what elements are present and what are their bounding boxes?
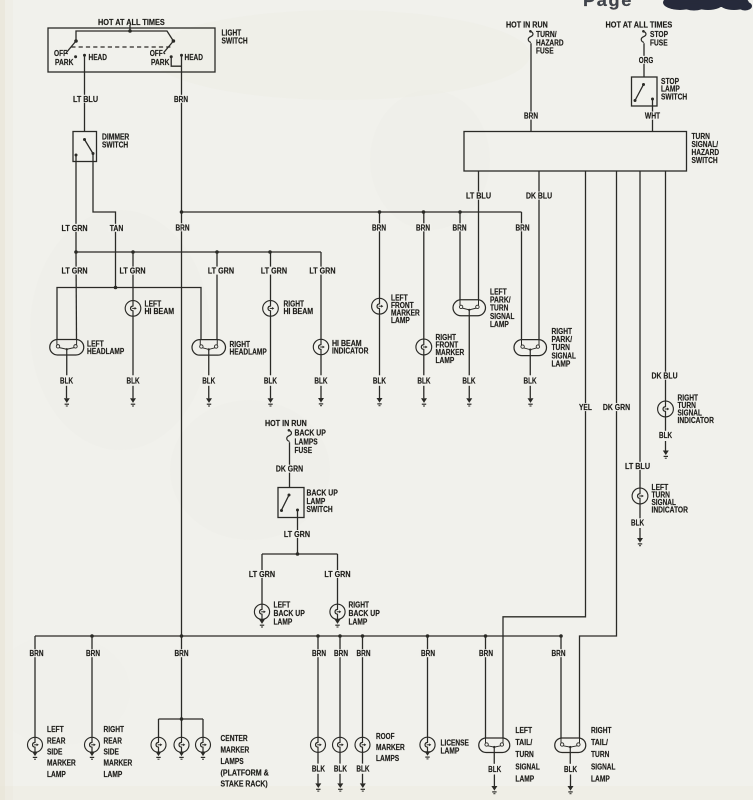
wire to center marker lamp 3 <box>202 719 204 737</box>
svg-text:RIGHT: RIGHT <box>591 726 612 735</box>
wire LT BLU turn switch to left park/turn lamp <box>478 171 480 300</box>
lamp LEFT REAR SIDE MARKER <box>28 737 43 752</box>
label BRN (mid) <box>174 223 191 231</box>
svg-text:BRN: BRN <box>421 649 435 658</box>
lamp RIGHT FRONT MARKER <box>416 339 432 355</box>
label LT GRN branch 5 <box>308 267 337 275</box>
turn signal/hazard switch box <box>464 132 687 172</box>
svg-text:BLK: BLK <box>488 765 501 774</box>
svg-text:SWITCH: SWITCH <box>102 140 128 149</box>
svg-text:MARKER: MARKER <box>47 759 76 768</box>
stop lamp switch contacts and blade <box>634 83 655 102</box>
lamp RIGHT TAIL/TURN SIGNAL <box>555 738 586 753</box>
wire LT GRN dimmer to headlamp bus <box>75 155 77 252</box>
svg-text:TAIL/: TAIL/ <box>591 738 609 747</box>
svg-text:BRN: BRN <box>174 95 188 104</box>
svg-text:HOT AT ALL TIMES: HOT AT ALL TIMES <box>98 18 165 27</box>
svg-text:TAN: TAN <box>110 224 124 233</box>
svg-text:LAMP: LAMP <box>591 775 610 784</box>
svg-text:ROOF: ROOF <box>376 732 395 741</box>
wire back up lamp distribution bar <box>262 553 338 555</box>
label BRN (roof marker 1) <box>311 649 328 657</box>
svg-text:BLK: BLK <box>60 377 73 386</box>
ground (roof marker 1) <box>315 783 321 791</box>
label DK BLU (right turn output) <box>525 192 554 200</box>
wire hi beam indicator ground lead <box>320 355 322 376</box>
svg-text:HOT IN RUN: HOT IN RUN <box>265 419 307 428</box>
wire to right hi beam lamp <box>270 252 272 301</box>
light switch box <box>48 28 215 72</box>
svg-text:TAIL/: TAIL/ <box>515 738 533 747</box>
ground (left indicator) <box>637 538 643 546</box>
svg-text:SWITCH: SWITCH <box>222 36 248 45</box>
lamp CENTER MARKER 3 <box>196 737 211 752</box>
wire LT BLU turn switch to left turn indicator <box>639 171 641 488</box>
lamp HI BEAM INDICATOR <box>313 339 328 354</box>
svg-text:MARKER: MARKER <box>376 743 405 752</box>
lamp LEFT TAIL/TURN SIGNAL <box>479 738 510 753</box>
wire to roof marker lamp 1 <box>317 636 319 737</box>
wire LT GRN distribution bus <box>76 251 321 253</box>
wire WHT stop lamp switch to turn signal switch <box>652 99 654 132</box>
label DK GRN <box>602 403 632 411</box>
svg-text:LAMPS: LAMPS <box>221 757 245 766</box>
wire to roof marker lamp 3 <box>362 636 364 737</box>
svg-text:HEAD: HEAD <box>89 53 108 62</box>
svg-text:LAMPS: LAMPS <box>295 437 319 446</box>
svg-text:HOT AT ALL TIMES: HOT AT ALL TIMES <box>606 21 673 30</box>
svg-text:LT GRN: LT GRN <box>62 267 88 276</box>
svg-text:LT GRN: LT GRN <box>309 267 335 276</box>
wire right tail ground lead <box>569 753 571 764</box>
dimmer switch box <box>73 132 97 162</box>
ground (license lamp) <box>425 751 431 759</box>
svg-text:RIGHT: RIGHT <box>104 725 125 734</box>
wire to ground (roof marker 1) <box>317 774 319 784</box>
lamp LEFT HEADLAMP <box>50 339 84 355</box>
ground (left hi beam) <box>130 398 136 406</box>
lamp ROOF MARKER 3 <box>355 737 370 752</box>
wire to license lamp <box>427 636 429 737</box>
back up lamp switch box <box>278 488 304 518</box>
ground (right front marker) <box>421 398 427 406</box>
wire BRN park lamp bus <box>182 211 522 213</box>
svg-text:REAR: REAR <box>47 736 66 745</box>
svg-text:BRN: BRN <box>516 223 530 232</box>
wire BRN to left park/turn lamp <box>459 212 461 300</box>
wire roof marker 2 ground lead <box>339 752 341 763</box>
wire BRN tail lamp bus <box>35 635 561 637</box>
svg-text:LT GRN: LT GRN <box>284 530 310 539</box>
ground (center marker 3) <box>200 752 206 760</box>
lamp LEFT PARK/TURN SIGNAL <box>453 300 486 316</box>
wire DK BLU turn switch to right park/turn lamp <box>538 171 540 339</box>
wire to right rear side marker lamp <box>91 636 93 737</box>
svg-text:LAMP: LAMP <box>274 618 293 627</box>
svg-text:LEFT: LEFT <box>47 725 64 734</box>
wire BRN fuse to turn signal switch <box>530 43 532 131</box>
svg-text:HOT IN RUN: HOT IN RUN <box>506 21 548 30</box>
svg-text:INDICATOR: INDICATOR <box>678 416 715 425</box>
lamp LICENSE <box>420 737 435 752</box>
label BRN branch left front marker <box>371 223 388 231</box>
svg-text:LAMP: LAMP <box>391 316 410 325</box>
svg-text:LT GRN: LT GRN <box>324 570 350 579</box>
svg-text:LT BLU: LT BLU <box>625 462 650 471</box>
label WHT <box>644 112 662 120</box>
wire to left back up lamp <box>261 554 263 604</box>
svg-text:BLK: BLK <box>417 377 430 386</box>
label LT BLU (left turn output) <box>465 192 493 200</box>
fuse STOP <box>641 30 646 43</box>
svg-text:BLK: BLK <box>202 377 215 386</box>
wire to hi beam indicator <box>320 252 322 339</box>
wire YEL turn switch to left tail/turn lamp <box>503 171 586 738</box>
svg-text:LT BLU: LT BLU <box>466 192 491 201</box>
junction dot back up lamp split <box>296 552 300 556</box>
svg-text:HI BEAM: HI BEAM <box>284 307 314 316</box>
label LT GRN (dimmer low beam) <box>60 224 89 232</box>
ground (right park/turn) <box>528 398 534 406</box>
ground (left rear side marker) <box>32 752 38 760</box>
wire center marker distribution bar <box>159 718 204 720</box>
wire BRN to right park/turn lamp <box>521 212 523 339</box>
svg-text:HEAD: HEAD <box>185 53 204 62</box>
wire to ground (roof marker 2) <box>339 774 341 784</box>
junction dot TAN bus <box>114 286 118 290</box>
wire to right back up lamp <box>337 554 339 604</box>
svg-text:CENTER: CENTER <box>221 734 248 743</box>
fuse TURN/HAZARD <box>528 30 533 43</box>
svg-text:LT BLU: LT BLU <box>73 95 98 104</box>
wire to ground (left tail) <box>493 775 495 787</box>
label LT GRN branch 4 <box>260 267 289 275</box>
lamp LEFT BACK UP <box>254 604 269 619</box>
svg-text:BRN: BRN <box>453 223 467 232</box>
svg-text:TURN: TURN <box>591 750 610 759</box>
junction dots on BRN bus <box>180 210 462 214</box>
blacked-out page number scribble <box>663 0 752 11</box>
svg-text:HEADLAMP: HEADLAMP <box>87 347 125 356</box>
label BRN (license lamp) <box>420 649 437 657</box>
svg-text:OFF: OFF <box>54 49 67 58</box>
wire TAN high-beam bus to headlamp pins <box>57 288 201 340</box>
wire right headlamp ground lead <box>208 355 210 375</box>
wire left front marker ground lead <box>379 314 381 375</box>
junction dot center marker bar <box>180 717 184 721</box>
label BRN (left rear marker) <box>28 649 45 657</box>
wire to ground (left hi beam) <box>132 386 134 399</box>
lamp RIGHT HEADLAMP <box>192 340 226 356</box>
svg-text:SWITCH: SWITCH <box>661 93 687 102</box>
wire park-to-head jumper <box>171 57 181 66</box>
svg-text:HI BEAM: HI BEAM <box>145 307 175 316</box>
svg-text:DK GRN: DK GRN <box>603 403 630 412</box>
svg-text:LAMP: LAMP <box>552 360 571 369</box>
svg-text:HEADLAMP: HEADLAMP <box>230 347 268 356</box>
svg-text:BRN: BRN <box>30 649 44 658</box>
wire BRN light switch down to tail bus <box>181 55 183 636</box>
wire BRN to left tail/turn lamp <box>485 636 487 738</box>
wire ORG stop fuse to stop lamp switch <box>643 43 645 77</box>
svg-text:DK GRN: DK GRN <box>276 465 303 474</box>
wire to ground (right front marker) <box>423 386 425 399</box>
label BRN (center markers) <box>173 649 190 657</box>
wire left tail ground lead <box>493 753 495 764</box>
svg-text:YEL: YEL <box>579 403 592 412</box>
svg-text:LT GRN: LT GRN <box>208 267 234 276</box>
back up lamp switch contacts and blade <box>280 494 299 513</box>
svg-text:SIDE: SIDE <box>104 748 120 757</box>
svg-text:INDICATOR: INDICATOR <box>652 505 689 514</box>
svg-text:FUSE: FUSE <box>536 47 554 56</box>
wire BRN to right tail/turn lamp <box>560 636 562 738</box>
label LT BLU (left indicator) <box>624 462 652 470</box>
wire right indicator ground lead <box>665 417 667 431</box>
svg-text:BACK UP: BACK UP <box>295 429 327 438</box>
wire to ground (left indicator) <box>639 528 641 538</box>
svg-text:LT GRN: LT GRN <box>62 224 88 233</box>
wire to ground (right indicator) <box>665 441 667 451</box>
ground (right back up lamp) <box>335 619 341 627</box>
lamp CENTER MARKER 2 <box>174 737 189 752</box>
svg-text:BLK: BLK <box>264 377 277 386</box>
ground (roof marker 3) <box>360 783 366 791</box>
wire to ground (right park/turn) <box>529 386 531 399</box>
wire DK GRN turn switch to right tail/turn lamp <box>580 171 617 738</box>
wire TAN dimmer to high beam bus <box>93 154 116 288</box>
junction dots on tail bus <box>90 634 563 638</box>
wire to right headlamp low-beam pin <box>216 252 218 340</box>
svg-text:BRN: BRN <box>175 649 189 658</box>
label TAN <box>108 224 124 232</box>
svg-text:REAR: REAR <box>104 736 123 745</box>
svg-text:BLK: BLK <box>127 377 140 386</box>
svg-text:BLK: BLK <box>312 764 325 773</box>
svg-text:LAMP: LAMP <box>349 618 368 627</box>
svg-text:LAMP: LAMP <box>104 770 123 779</box>
label LT GRN (back up output) <box>283 530 312 538</box>
wire to ground (right tail) <box>570 775 572 787</box>
wire to left rear side marker lamp <box>34 636 36 737</box>
svg-text:BLK: BLK <box>564 765 577 774</box>
svg-text:TURN: TURN <box>515 750 534 759</box>
svg-text:FUSE: FUSE <box>295 446 313 455</box>
dimmer switch contacts and blade <box>75 138 95 157</box>
svg-text:BRN: BRN <box>357 649 371 658</box>
label BRN (roof marker 3) <box>355 649 372 657</box>
label BRN (upper) <box>173 95 190 103</box>
label BRN (roof marker 2) <box>333 649 350 657</box>
svg-text:SWITCH: SWITCH <box>307 505 333 514</box>
label LT GRN branch 3 <box>207 267 236 275</box>
svg-text:(PLATFORM &: (PLATFORM & <box>221 768 269 777</box>
wire BRN to center marker lamps <box>181 636 183 719</box>
label YEL <box>578 403 594 411</box>
wire to center marker lamp 1 <box>158 719 160 737</box>
ground (right hi beam) <box>268 398 274 406</box>
label BRN (left tail) <box>478 649 495 657</box>
svg-text:DK BLU: DK BLU <box>526 192 552 201</box>
svg-text:SWITCH: SWITCH <box>692 156 718 165</box>
lamp CENTER MARKER 1 <box>151 737 166 752</box>
svg-text:SIGNAL: SIGNAL <box>515 762 539 771</box>
wire DK BLU turn switch to right turn indicator <box>665 171 667 401</box>
label LT GRN (left back up) <box>248 570 277 578</box>
ground (center marker 2) <box>179 752 185 760</box>
wire to ground (right hi beam) <box>270 386 272 399</box>
svg-text:LT GRN: LT GRN <box>120 267 146 276</box>
svg-text:LAMP: LAMP <box>441 747 460 756</box>
svg-text:BLK: BLK <box>659 431 672 440</box>
wire to ground (hi beam indicator) <box>320 386 322 398</box>
wire right hi beam ground lead <box>270 316 272 375</box>
lamp LEFT TURN SIGNAL INDICATOR <box>632 488 648 504</box>
wire LT GRN back up switch output <box>297 510 299 554</box>
svg-text:FUSE: FUSE <box>650 38 668 47</box>
svg-text:BLK: BLK <box>356 764 369 773</box>
svg-text:LAMPS: LAMPS <box>376 754 400 763</box>
lamp LEFT HI BEAM <box>125 301 141 317</box>
svg-text:PARK: PARK <box>151 58 170 67</box>
wire feed into light switch <box>129 25 131 31</box>
stop lamp switch box <box>632 77 658 106</box>
lamp RIGHT TURN SIGNAL INDICATOR <box>658 401 674 417</box>
svg-text:BRN: BRN <box>86 649 100 658</box>
wire to ground (left headlamp) <box>66 386 68 399</box>
svg-text:PARK: PARK <box>55 58 74 67</box>
svg-text:ORG: ORG <box>639 56 654 65</box>
svg-text:BLK: BLK <box>314 377 327 386</box>
svg-text:BRN: BRN <box>176 223 190 232</box>
svg-text:STAKE RACK): STAKE RACK) <box>221 780 268 789</box>
label LT GRN (right back up) <box>323 570 352 578</box>
wire to center marker lamp 2 <box>181 719 183 737</box>
svg-text:BRN: BRN <box>312 649 326 658</box>
ground (right indicator) <box>663 451 669 459</box>
wire roof marker 3 ground lead <box>362 752 364 763</box>
svg-text:BRN: BRN <box>372 223 386 232</box>
svg-text:WHT: WHT <box>645 112 660 121</box>
label ORG <box>637 56 654 64</box>
label LT BLU <box>72 95 100 103</box>
ground (left tail) <box>491 786 497 794</box>
svg-text:BLK: BLK <box>631 519 644 528</box>
ground (left front marker) <box>377 398 383 406</box>
wire left park/turn ground lead <box>468 316 470 376</box>
wire to left front marker lamp <box>379 212 381 298</box>
wire left hi beam ground lead <box>132 316 134 375</box>
label BRN branch right front marker <box>415 223 432 231</box>
wire to ground (right headlamp) <box>208 386 210 399</box>
wire to left hi beam lamp <box>132 252 134 301</box>
wire to left headlamp low-beam pin <box>75 252 78 340</box>
lamp RIGHT BACK UP <box>330 604 345 619</box>
ground (center marker 1) <box>156 752 162 760</box>
label DK GRN (back up feed) <box>275 465 305 473</box>
ground (roof marker 2) <box>337 783 343 791</box>
ground (right tail) <box>568 786 574 794</box>
light switch blade right <box>164 41 174 54</box>
wire LT BLU light switch to dimmer switch <box>84 55 86 131</box>
svg-text:SIDE: SIDE <box>47 748 63 757</box>
junction dots on LT GRN bus <box>74 250 272 254</box>
svg-text:LT GRN: LT GRN <box>261 267 287 276</box>
lamp RIGHT REAR SIDE MARKER <box>85 737 100 752</box>
ground (right rear side marker) <box>89 752 95 760</box>
wire roof marker 1 ground lead <box>317 752 319 763</box>
light switch contacts <box>74 54 183 59</box>
fuse BACK UP LAMPS <box>287 429 292 441</box>
ground (left back up lamp) <box>259 619 265 627</box>
wire to roof marker lamp 2 <box>339 636 341 737</box>
svg-text:LEFT: LEFT <box>515 726 532 735</box>
label BRN branch right park lamp <box>514 223 531 231</box>
svg-text:INDICATOR: INDICATOR <box>332 346 369 355</box>
svg-text:LAMP: LAMP <box>47 770 66 779</box>
light switch blade left <box>66 41 76 54</box>
svg-text:DK BLU: DK BLU <box>652 372 678 381</box>
svg-text:BLK: BLK <box>373 377 386 386</box>
label BRN branch left park lamp <box>451 223 468 231</box>
label LT GRN branch 1 <box>60 267 89 275</box>
svg-text:MARKER: MARKER <box>104 759 133 768</box>
wire to right front marker lamp <box>423 212 425 339</box>
light switch gang link (dashed) <box>71 46 170 48</box>
svg-text:LAMP: LAMP <box>490 320 509 329</box>
lamp LEFT FRONT MARKER <box>372 298 388 314</box>
svg-text:BLK: BLK <box>524 377 537 386</box>
wire DK GRN fuse to back up lamp switch <box>289 442 291 487</box>
ground (left park/turn) <box>466 398 472 406</box>
svg-text:BLK: BLK <box>334 764 347 773</box>
label BRN (right rear marker) <box>85 649 102 657</box>
label BRN (right tail) <box>550 649 567 657</box>
svg-text:Page: Page <box>583 0 633 10</box>
wire to ground (roof marker 3) <box>362 774 364 784</box>
svg-text:BRN: BRN <box>552 649 566 658</box>
wire right front marker ground lead <box>423 355 425 375</box>
ground (left headlamp) <box>64 398 70 406</box>
ground (hi beam indicator) <box>318 398 324 406</box>
label LT GRN branch 2 <box>118 267 147 275</box>
lamp RIGHT PARK/TURN SIGNAL <box>514 340 547 356</box>
ground (right headlamp) <box>206 398 212 406</box>
wire right park/turn ground lead <box>529 356 531 376</box>
lamp ROOF MARKER 1 <box>311 737 326 752</box>
svg-text:BRN: BRN <box>334 649 348 658</box>
light switch internal bus <box>76 31 173 41</box>
label BRN (turn/hazard feed) <box>523 112 540 120</box>
wire to ground (left park/turn) <box>468 386 470 399</box>
svg-text:BRN: BRN <box>479 649 493 658</box>
svg-text:OFF: OFF <box>150 49 163 58</box>
svg-text:BRN: BRN <box>524 112 538 121</box>
svg-text:LT GRN: LT GRN <box>249 570 275 579</box>
svg-text:SIGNAL: SIGNAL <box>591 762 615 771</box>
svg-text:LAMP: LAMP <box>436 356 455 365</box>
wire to ground (left front marker) <box>379 386 381 398</box>
wire left headlamp ground lead <box>66 355 68 375</box>
label DK BLU (right indicator) <box>650 372 679 380</box>
lamp RIGHT HI BEAM <box>263 301 279 317</box>
svg-text:MARKER: MARKER <box>221 746 250 755</box>
wire left indicator ground lead <box>639 504 641 518</box>
svg-text:LAMP: LAMP <box>515 775 534 784</box>
svg-text:BRN: BRN <box>416 223 430 232</box>
lamp ROOF MARKER 2 <box>333 737 348 752</box>
svg-text:BLK: BLK <box>462 377 475 386</box>
